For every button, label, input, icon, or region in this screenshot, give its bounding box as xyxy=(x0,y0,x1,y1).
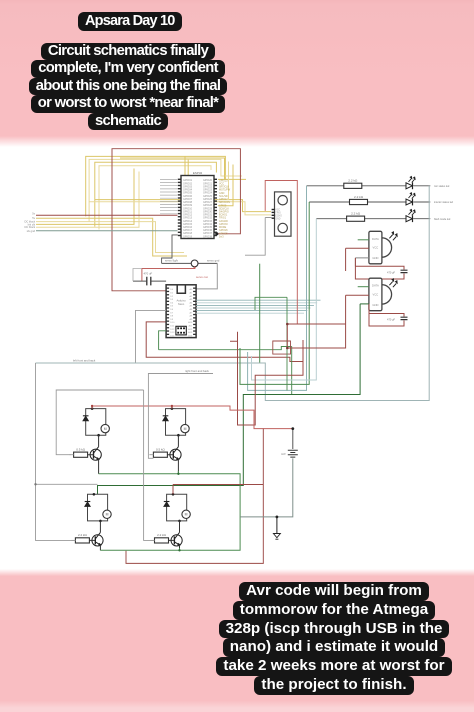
wire base xyxy=(167,454,173,456)
junction bottom xyxy=(99,520,102,523)
motor xyxy=(103,510,111,518)
wire green loop row2 return xyxy=(240,202,309,384)
sensor U3 signal arrows xyxy=(389,232,397,240)
wire motor loop xyxy=(166,409,186,436)
wire motor loop xyxy=(88,494,108,521)
net labels left inputs xyxy=(24,211,35,233)
svg-text:0.5 kΩ: 0.5 kΩ xyxy=(156,447,166,451)
sensor U3 dome xyxy=(382,238,392,257)
svg-text:DATA: DATA xyxy=(372,237,379,241)
wire gray nano A-pin xyxy=(136,310,167,363)
wire green tangle vertical xyxy=(255,297,287,390)
battery BT1 xyxy=(288,450,298,457)
svg-text:DC block: DC block xyxy=(24,225,35,229)
transistor NPN xyxy=(92,535,103,546)
svg-text:VCC: VCC xyxy=(373,293,379,297)
svg-text:ESP32: ESP32 xyxy=(193,171,203,175)
wire teal nano right bus xyxy=(196,300,320,313)
svg-text:Nano: Nano xyxy=(178,302,185,306)
svg-text:470 uF: 470 uF xyxy=(144,272,153,276)
title text box: Apsara Day 10 xyxy=(78,12,182,31)
sensor U4 pin labels xyxy=(372,284,379,307)
LED D3 xyxy=(406,216,413,222)
svg-text:2.2 kΩ: 2.2 kΩ xyxy=(157,533,167,537)
wire red ultrasonic loop xyxy=(265,181,297,325)
wire collector xyxy=(179,521,181,533)
sensor U3 IR receiver body xyxy=(369,231,382,263)
wire maroon IC to nano xyxy=(112,149,240,291)
svg-text:left front and back: left front and back xyxy=(73,359,96,363)
wire yellow right of IC xyxy=(120,158,233,206)
resistor base 2.2 k&#937; xyxy=(155,538,169,543)
wire red servo power xyxy=(142,267,195,281)
wire green nano D12 to rail xyxy=(159,331,292,395)
wire resistor feed xyxy=(71,539,75,541)
sensor U2 pin labels xyxy=(275,210,282,221)
resistor R3 2.2k xyxy=(347,216,365,221)
wire dark IC bottom left down xyxy=(162,235,178,264)
sensor U3 pin labels xyxy=(372,237,379,260)
sensor U2 HC-SR04 body xyxy=(275,192,292,236)
wire yellow across IC to ultrasonic xyxy=(89,200,271,215)
module U5 Arduino Nano body xyxy=(166,285,196,338)
svg-text:servo con: servo con xyxy=(196,275,209,279)
svg-text:right front and back: right front and back xyxy=(185,369,210,373)
flyback diode xyxy=(163,416,169,421)
wire gray base feed D trunk xyxy=(144,390,155,540)
wire battery top xyxy=(292,429,294,449)
caption text box top xyxy=(0,43,256,131)
svg-text:HW: HW xyxy=(281,452,286,456)
svg-text:M: M xyxy=(185,513,188,517)
sensor U2 transducer top xyxy=(278,196,287,205)
wire maroon tangle xyxy=(287,295,345,348)
svg-text:5v: 5v xyxy=(32,211,35,215)
svg-text:M: M xyxy=(184,427,187,431)
LED D1 xyxy=(406,183,413,189)
IC U1 pins right xyxy=(214,179,217,237)
sensor U2 transducer bottom xyxy=(278,223,287,232)
wire collector xyxy=(177,435,179,447)
wire teal loop row1 return xyxy=(248,186,307,391)
module U5 pin names xyxy=(170,288,193,337)
resistor R1 2.2k xyxy=(344,183,362,188)
svg-text:M: M xyxy=(104,427,107,431)
wire servo signal xyxy=(162,262,218,264)
svg-text:GND: GND xyxy=(275,218,280,220)
sensor U4 dome xyxy=(382,285,392,304)
wire teal loop row3 return xyxy=(252,219,317,380)
svg-text:5v: 5v xyxy=(32,216,35,220)
transistor NPN xyxy=(170,449,181,460)
svg-text:GND: GND xyxy=(372,256,378,260)
wire maroon small nest xyxy=(273,341,291,354)
junction bottom xyxy=(178,520,181,523)
module U5 pins xyxy=(167,288,196,336)
capacitor C2 plates xyxy=(401,270,408,272)
capacitor C3 470uF loop xyxy=(369,304,404,326)
wire battery bottom to gnd rail xyxy=(240,458,293,517)
wire gray left gnd feeder xyxy=(36,230,178,232)
svg-text:2.2 kΩ: 2.2 kΩ xyxy=(348,179,358,183)
IC U1 pin names xyxy=(183,179,213,238)
resistor base 0.5 k&#937; xyxy=(74,452,88,457)
sensor U2 pins xyxy=(272,209,275,219)
wire green IR1 data xyxy=(358,239,369,241)
pink bottom band xyxy=(0,569,474,712)
motor xyxy=(101,424,109,432)
svg-text:2.2 kΩ: 2.2 kΩ xyxy=(351,212,361,216)
resistor base 2.2 k&#937; xyxy=(75,538,89,543)
svg-text:servo gnd: servo gnd xyxy=(207,259,220,263)
wire maroon left label 5v xyxy=(36,214,178,216)
transistor NPN xyxy=(171,535,182,546)
svg-text:0.5 kΩ: 0.5 kΩ xyxy=(76,447,86,451)
wire gray base feed B xyxy=(148,374,213,459)
wire base xyxy=(89,539,95,541)
junction IC pin 15 xyxy=(215,232,218,235)
junction bottom xyxy=(177,434,180,437)
wire collector xyxy=(98,435,100,447)
wire emitter xyxy=(98,459,100,474)
IC U1 right outside labels xyxy=(219,179,231,238)
wire gray cap loop xyxy=(133,269,142,282)
wire gray base feed A xyxy=(56,390,143,455)
wire motor loop xyxy=(86,409,106,436)
sensor U4 IR receiver body xyxy=(369,278,382,311)
svg-text:GND: GND xyxy=(372,303,378,307)
wire green sensor branch xyxy=(259,264,261,363)
junction top xyxy=(91,407,94,410)
wire gray ultrasonic gnd xyxy=(245,218,272,256)
svg-text:interior status led: interior status led xyxy=(434,201,454,204)
resistor base 0.5 k&#937; xyxy=(153,452,167,457)
svg-text:2.2 kΩ: 2.2 kΩ xyxy=(354,195,364,199)
module U5 usb connector xyxy=(177,285,185,294)
wire gray IR1 gnd xyxy=(355,258,369,266)
wire maroon IR1 vcc xyxy=(346,248,369,271)
svg-text:2.2 kΩ: 2.2 kΩ xyxy=(78,533,88,537)
wire gray outer loop LED bus xyxy=(36,186,430,401)
svg-text:ECHO: ECHO xyxy=(275,215,282,217)
svg-text:5v/3: 5v/3 xyxy=(219,236,224,239)
svg-text:servo 9g/b: servo 9g/b xyxy=(165,259,179,263)
svg-text:470 µF: 470 µF xyxy=(387,318,396,322)
flyback diode xyxy=(83,416,89,421)
capacitor C1 xyxy=(133,280,166,282)
wire maroon nano vin xyxy=(146,322,303,362)
wire maroon IR2 vcc xyxy=(346,294,369,296)
wire maroon lower-left box xyxy=(230,332,303,425)
svg-text:DATA: DATA xyxy=(372,284,379,288)
wire gray left trunk xyxy=(36,363,98,540)
ground GND1 xyxy=(276,517,278,534)
junction bottom xyxy=(97,434,100,437)
wire emitter xyxy=(99,545,101,551)
wire base xyxy=(88,454,94,456)
flyback diode xyxy=(164,502,170,507)
wire maroon supply row2 xyxy=(173,485,263,495)
svg-text:flash mode led: flash mode led xyxy=(434,218,451,221)
wire green IR2 gnd loop to row2 supply xyxy=(98,304,361,494)
junction top xyxy=(93,493,96,496)
wire LED row 1 xyxy=(307,185,431,187)
servo M1 connector circle xyxy=(191,260,198,267)
transistor NPN xyxy=(90,449,101,460)
pink top band xyxy=(0,0,474,147)
wire emitter xyxy=(179,545,181,551)
capacitor C3 plates xyxy=(401,317,408,319)
capacitor C2 470uF loop xyxy=(355,258,404,279)
wire maroon right trunk xyxy=(126,429,263,564)
IC U1 pins left xyxy=(178,179,181,237)
svg-text:VCC: VCC xyxy=(275,210,280,212)
motor xyxy=(182,510,190,518)
flyback diode xyxy=(85,502,91,507)
wire resistor feed xyxy=(149,454,153,456)
wire LED row 2 xyxy=(309,201,430,203)
wire yellow drops into IC top xyxy=(185,156,188,175)
wire gray IC left pin stubs xyxy=(160,180,177,214)
wire green IR2 gnd stub xyxy=(360,303,369,305)
svg-text:TRIG: TRIG xyxy=(275,213,281,215)
junction top xyxy=(172,493,175,496)
wire resistor feed xyxy=(70,454,74,456)
motor xyxy=(181,424,189,432)
resistor R2 2.2k xyxy=(350,199,368,204)
wire yellow harness top nest xyxy=(86,156,246,229)
wire green IR2 data xyxy=(358,286,369,288)
module U5 icsp header xyxy=(176,326,186,335)
svg-text:GPIO19: GPIO19 xyxy=(183,235,193,238)
LED D2 xyxy=(406,199,413,205)
wire LED row 3 xyxy=(316,218,430,220)
caption text box bottom xyxy=(197,582,471,695)
svg-text:VCC: VCC xyxy=(373,246,379,250)
svg-text:M: M xyxy=(106,513,109,517)
svg-text:470 µF: 470 µF xyxy=(387,271,396,275)
IC U1 ESP32 body xyxy=(181,176,214,239)
svg-text:mic status led: mic status led xyxy=(434,185,450,188)
wire motor loop xyxy=(167,494,187,521)
svg-text:ick gnd: ick gnd xyxy=(27,229,36,233)
wire green emitter return xyxy=(99,471,241,550)
wire resistor feed xyxy=(151,539,155,541)
wire collector xyxy=(99,521,101,533)
svg-text:GPIO38: GPIO38 xyxy=(203,235,213,238)
wire red motor supply row1 xyxy=(92,406,293,429)
wire yellow left feeders xyxy=(36,169,187,257)
sensor U4 signal arrows xyxy=(389,279,397,287)
junction top xyxy=(171,407,174,410)
wire emitter xyxy=(177,459,179,474)
wire base xyxy=(169,539,175,541)
wire gray servo gnd to nano xyxy=(196,263,217,289)
